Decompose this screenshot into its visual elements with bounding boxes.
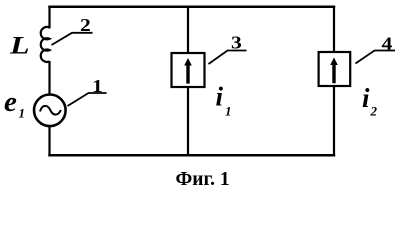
svg-text:3: 3 bbox=[231, 33, 242, 53]
svg-text:4: 4 bbox=[382, 34, 393, 54]
current source U4 arrow bbox=[330, 58, 338, 84]
leader line for label 4 bbox=[356, 51, 396, 64]
svg-text:Фиг. 1: Фиг. 1 bbox=[176, 169, 230, 189]
leader line for label 3 bbox=[209, 51, 247, 65]
label 3 bbox=[231, 33, 242, 53]
ac source sine symbol bbox=[40, 106, 61, 115]
caption Фиг. 1 bbox=[176, 169, 230, 190]
label i2 bbox=[362, 83, 378, 119]
wire top horizontal bbox=[48, 5, 335, 8]
svg-text:2: 2 bbox=[370, 104, 378, 119]
current source U4 box bbox=[319, 52, 351, 86]
label 1 bbox=[92, 77, 103, 97]
svg-text:e: e bbox=[4, 86, 17, 118]
current source U3 arrow bbox=[184, 58, 192, 84]
leader line for label 1 bbox=[68, 93, 107, 106]
leader line for label 2 bbox=[52, 33, 93, 45]
svg-text:2: 2 bbox=[80, 16, 91, 36]
wire middle vertical upper bbox=[187, 6, 189, 53]
inductor L (2) bbox=[41, 27, 50, 62]
wire left vertical lower (source to bottom) bbox=[48, 126, 50, 157]
wire right vertical lower bbox=[333, 86, 335, 157]
label 2 bbox=[80, 16, 91, 36]
svg-text:1: 1 bbox=[19, 106, 26, 121]
label e1 bbox=[4, 86, 25, 121]
svg-text:i: i bbox=[216, 82, 224, 112]
label 4 bbox=[382, 34, 393, 54]
current source U3 box bbox=[172, 53, 205, 87]
ac source e1 (1) circle bbox=[34, 95, 66, 127]
wire bottom horizontal bbox=[48, 154, 335, 157]
svg-text:i: i bbox=[362, 83, 370, 113]
label i1 bbox=[216, 82, 232, 119]
svg-text:1: 1 bbox=[92, 77, 103, 97]
wire right vertical upper bbox=[333, 6, 335, 53]
svg-text:L: L bbox=[9, 32, 30, 60]
label L bbox=[9, 32, 30, 60]
wire middle vertical lower bbox=[187, 87, 189, 156]
svg-text:1: 1 bbox=[225, 104, 232, 119]
wire left vertical middle (inductor to source) bbox=[48, 61, 50, 95]
wire left vertical upper (top corner to inductor) bbox=[48, 6, 50, 29]
